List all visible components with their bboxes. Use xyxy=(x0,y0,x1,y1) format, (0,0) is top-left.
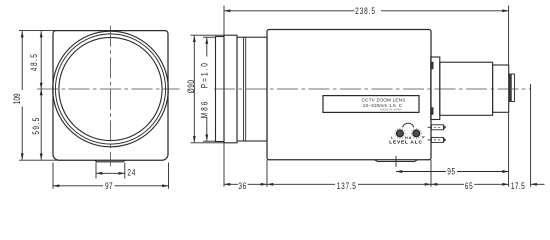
svg-text:59.5: 59.5 xyxy=(31,116,41,134)
svg-text:109: 109 xyxy=(12,93,22,104)
svg-text:137.5: 137.5 xyxy=(337,181,357,191)
svg-text:LEVEL: LEVEL xyxy=(389,140,409,145)
svg-text:ALC: ALC xyxy=(410,140,422,145)
svg-text:Ø90: Ø90 xyxy=(186,79,196,93)
svg-text:95: 95 xyxy=(447,167,456,177)
svg-text:48.5: 48.5 xyxy=(29,53,39,71)
svg-text:238.5: 238.5 xyxy=(355,6,376,16)
svg-text:97: 97 xyxy=(105,181,113,191)
svg-text:65: 65 xyxy=(465,181,474,191)
svg-text:24: 24 xyxy=(127,167,136,177)
svg-text:17.5: 17.5 xyxy=(511,181,525,191)
svg-text:M86 P=1.0: M86 P=1.0 xyxy=(200,61,210,118)
svg-text:CCTV ZOOM LENS: CCTV ZOOM LENS xyxy=(361,97,405,103)
svg-text:36: 36 xyxy=(238,181,247,191)
svg-text:MADE IN JAPAN: MADE IN JAPAN xyxy=(381,108,402,112)
